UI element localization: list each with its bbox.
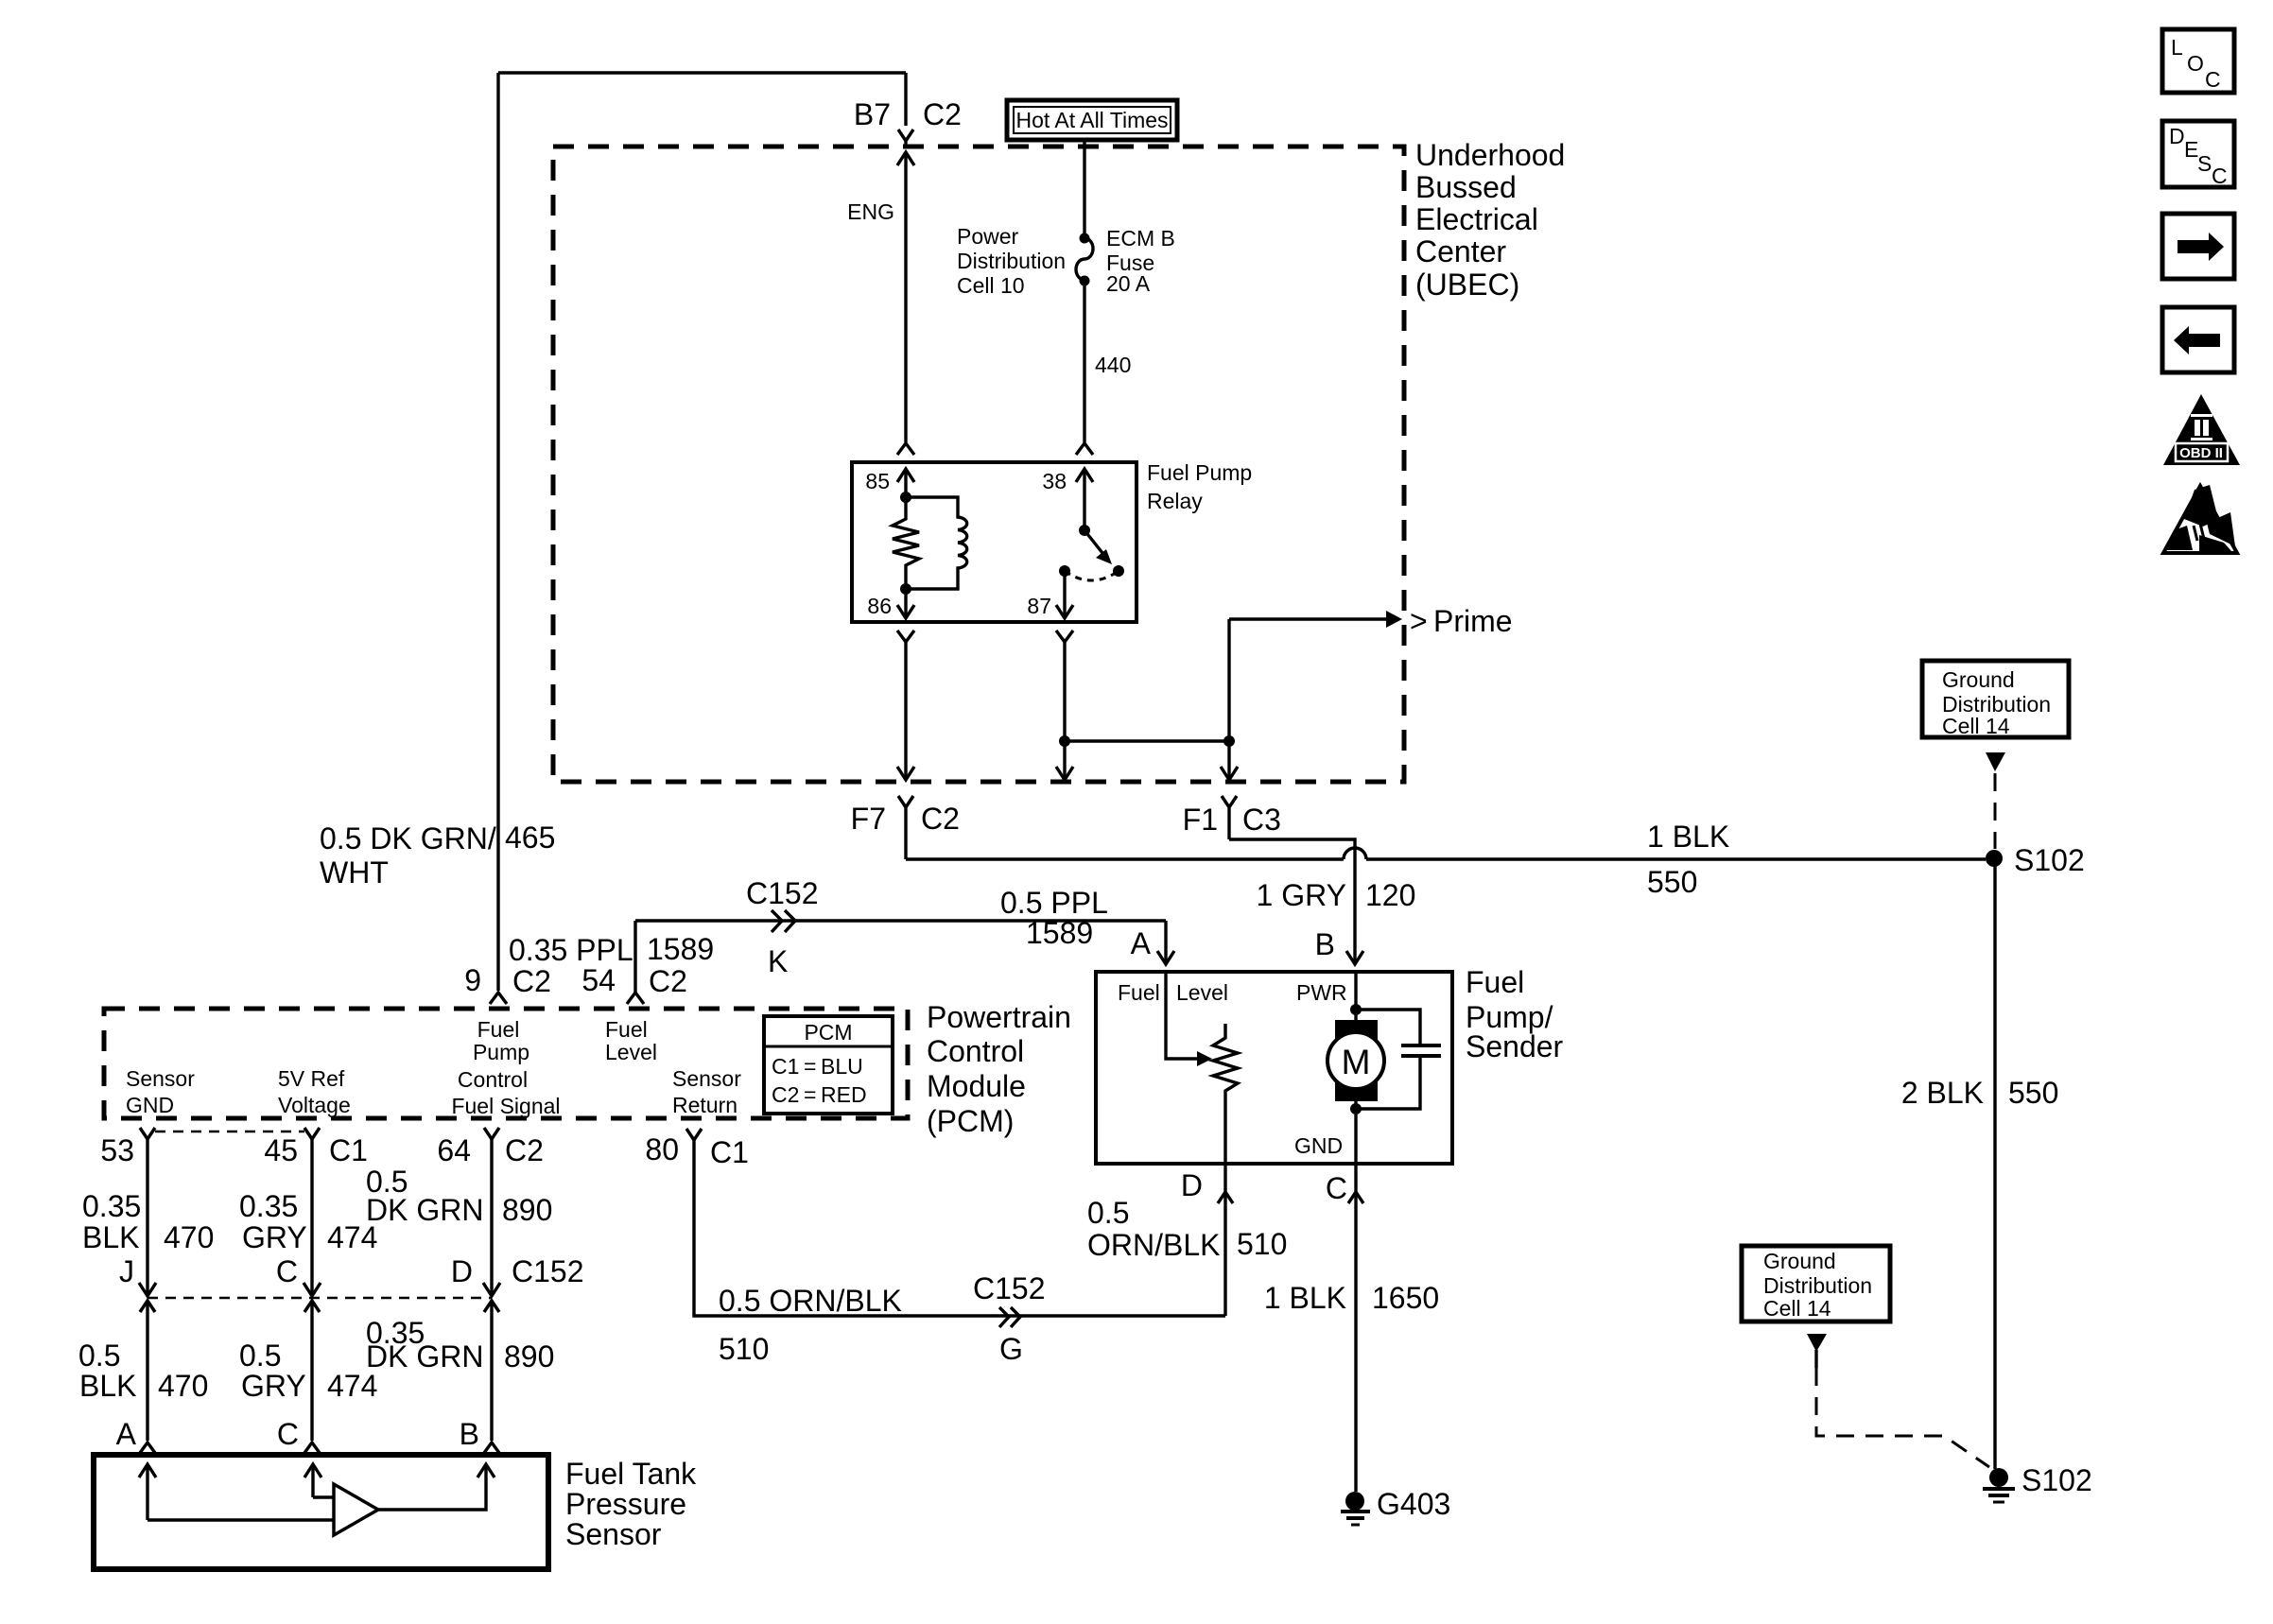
wire fuel level wiper from pin A	[1166, 972, 1197, 1059]
wire 1 BLK 550 from F7 to S102 with hop	[906, 857, 1344, 860]
wire 465 DK GRN/WHT left vertical	[496, 73, 499, 991]
wire top horizontal feed	[498, 71, 906, 74]
svg-text:K: K	[768, 944, 788, 978]
svg-text:9: 9	[464, 963, 481, 997]
label ECM B Fuse 20 A	[1106, 226, 1175, 296]
relay pin 87 contact node	[1059, 565, 1070, 577]
PCM pin 45 connector	[304, 1128, 320, 1139]
label 0.5 GRY | 474 (lower)	[239, 1339, 377, 1403]
wire ENG from B7 down to relay pin 85	[904, 152, 907, 442]
PCM label Fuel Level	[605, 1017, 657, 1064]
svg-text:B: B	[460, 1417, 479, 1451]
wire down to fuel pump pin A	[1164, 921, 1167, 964]
svg-text:54: 54	[581, 963, 616, 997]
svg-text:Powertrain: Powertrain	[927, 1000, 1071, 1034]
svg-text:Fuel Signal: Fuel Signal	[451, 1094, 560, 1118]
svg-text:PWR: PWR	[1296, 980, 1347, 1005]
wire 440 from fuse to relay pin 38	[1083, 285, 1085, 442]
sensor internal wire C to amplifier	[313, 1495, 334, 1498]
label 0.35 DK GRN | 890 (lower)	[366, 1316, 554, 1373]
svg-text:Sensor: Sensor	[126, 1066, 195, 1091]
svg-text:GND: GND	[126, 1093, 174, 1117]
svg-text:G403: G403	[1377, 1487, 1450, 1521]
svg-text:Fuel: Fuel	[1466, 965, 1524, 999]
svg-text:Pump: Pump	[473, 1040, 529, 1064]
connector chevron below pump pin C	[1348, 1192, 1363, 1203]
svg-text:WHT: WHT	[320, 855, 389, 890]
wire 474 GRY upper segment	[310, 1139, 313, 1296]
svg-text:S: S	[2197, 151, 2212, 176]
sensor internal arrow pin B	[477, 1464, 495, 1477]
svg-text:C2: C2	[923, 97, 962, 131]
svg-text:Level: Level	[1176, 980, 1228, 1005]
connector B7 C2 symbol	[898, 130, 913, 148]
fuel pump motor	[1327, 1020, 1384, 1101]
splice S102 (upper) dot	[1986, 850, 2003, 867]
connector chevron below relay pin 86	[897, 631, 914, 642]
label 45 | C1	[264, 1133, 368, 1167]
svg-text:C: C	[1326, 1171, 1347, 1205]
fuse ECM B 20 A	[1076, 233, 1093, 286]
sensor internal arrow pin C	[304, 1464, 321, 1497]
Ground Distribution Cell 14 box (upper)	[1922, 661, 2069, 738]
connector chevron above relay pin 85	[897, 443, 914, 455]
svg-text:B7: B7	[854, 97, 891, 131]
wire pin 87 down to junction	[1063, 642, 1066, 741]
svg-text:Fuel Pump: Fuel Pump	[1147, 460, 1252, 485]
svg-text:0.5: 0.5	[239, 1339, 281, 1373]
wiper arrowhead	[1197, 1051, 1212, 1066]
wire 890 DK GRN lower segment	[490, 1301, 493, 1441]
svg-text:550: 550	[1647, 865, 1697, 899]
icon DESC box	[2162, 121, 2234, 188]
svg-text:PCM: PCM	[804, 1020, 852, 1045]
connector chevron below C152 at C	[304, 1301, 320, 1312]
label 80 | C1	[645, 1132, 749, 1169]
svg-text:64: 64	[437, 1133, 471, 1167]
arrow down at UBEC bottom on F7 wire	[897, 767, 914, 780]
svg-text:510: 510	[1237, 1227, 1287, 1261]
relay pin 85 arrow	[865, 469, 914, 497]
PCM legend box	[764, 1016, 893, 1114]
ground symbol at S102 (lower)	[1983, 1489, 2015, 1502]
svg-text:ECM B: ECM B	[1106, 226, 1175, 251]
label Powertrain Control Module (PCM)	[927, 1000, 1071, 1138]
svg-text:D: D	[451, 1254, 473, 1288]
svg-text:C2: C2	[921, 802, 960, 836]
junction dot motor bottom	[1350, 1103, 1362, 1114]
label 0.5 ORN/BLK / 510 (left)	[719, 1284, 902, 1366]
svg-text:0.5 ORN/BLK: 0.5 ORN/BLK	[719, 1284, 902, 1318]
wire 1 GRY 120 from F1 to fuel pump B	[1229, 839, 1355, 964]
svg-text:BLK: BLK	[79, 1369, 136, 1403]
PCM pin 53 connector	[140, 1128, 155, 1139]
thin dashed connector line C152 (J-C-D)	[147, 1297, 492, 1300]
label 1 GRY | 120	[1257, 878, 1416, 912]
svg-text:85: 85	[865, 469, 890, 493]
svg-text:C1: C1	[710, 1135, 749, 1169]
off-page triangle below lower Ground Distribution box	[1807, 1334, 1827, 1352]
svg-text:Center: Center	[1415, 234, 1506, 268]
svg-text:0.35 PPL: 0.35 PPL	[509, 933, 633, 967]
svg-text:M: M	[1342, 1043, 1371, 1081]
wire 470 BLK upper segment	[146, 1139, 148, 1296]
svg-text:38: 38	[1042, 469, 1067, 493]
junction dot F1 branch	[1223, 735, 1235, 747]
label 0.5 DK GRN | 890	[366, 1165, 552, 1227]
svg-text:474: 474	[327, 1369, 377, 1403]
svg-text:Sensor: Sensor	[672, 1066, 741, 1091]
label 0.35 BLK | 470	[82, 1189, 214, 1254]
svg-text:C3: C3	[1242, 803, 1281, 837]
svg-text:Cell 14: Cell 14	[1942, 714, 2010, 738]
arrow up at UBEC top edge on ENG wire	[897, 152, 914, 165]
relay switch arm (energized, arrow)	[1084, 530, 1112, 564]
svg-text:Electrical: Electrical	[1415, 202, 1538, 236]
label 1 BLK | 1650	[1264, 1281, 1439, 1315]
PCM pin 54 connector chevron	[627, 993, 644, 1004]
svg-text:>: >	[1410, 604, 1428, 638]
svg-text:1 BLK: 1 BLK	[1647, 820, 1729, 854]
label 9 | C2	[464, 963, 551, 998]
label 64 | C2	[437, 1133, 544, 1167]
label 0.5 ORN/BLK | 510 (right)	[1087, 1196, 1287, 1262]
label Fuel Pump Relay	[1147, 460, 1252, 513]
icon back arrow box	[2162, 307, 2234, 372]
arrow J at C152	[139, 1283, 156, 1296]
sensor internal wire amplifier to pin B	[378, 1464, 486, 1510]
thin dashed connector line C1 (53-45)	[155, 1131, 304, 1133]
connector C152 G chevrons	[999, 1307, 1020, 1327]
junction dot motor top	[1350, 1004, 1362, 1015]
fuel level sender resistor	[1213, 1024, 1238, 1164]
PCM internal labels	[451, 1017, 560, 1118]
svg-text:80: 80	[645, 1132, 679, 1166]
svg-text:C152: C152	[512, 1254, 584, 1288]
off-page triangle below upper Ground Distribution box	[1986, 752, 2005, 771]
capacitor plates	[1401, 1045, 1441, 1056]
wire Prime horizontal	[1229, 617, 1386, 620]
svg-text:F7: F7	[851, 802, 886, 836]
svg-text:120: 120	[1365, 878, 1415, 912]
svg-text:O: O	[2187, 51, 2204, 76]
svg-text:DK GRN: DK GRN	[366, 1339, 483, 1373]
label 0.35 PPL | 1589 / 54 | C2	[509, 932, 714, 998]
svg-text:Distribution: Distribution	[957, 249, 1066, 273]
svg-text:Relay: Relay	[1147, 489, 1203, 513]
svg-text:45: 45	[264, 1133, 298, 1167]
label Fuel Pump/ Sender	[1466, 965, 1564, 1063]
svg-text:890: 890	[504, 1339, 554, 1373]
connector chevron below C152 at J	[140, 1301, 155, 1312]
PCM pin 64 connector	[484, 1128, 499, 1139]
svg-text:53: 53	[100, 1133, 134, 1167]
svg-text:GRY: GRY	[242, 1220, 307, 1254]
wire 510 horizontal to PCM pin 80	[694, 1140, 1225, 1316]
svg-text:D: D	[2169, 124, 2185, 148]
stem below triangle	[1814, 1350, 1817, 1368]
label 1 BLK | 550	[1647, 820, 1729, 899]
relay pin 87 arrow	[1027, 571, 1073, 618]
svg-text:GND: GND	[1294, 1133, 1343, 1158]
pump internal label Fuel | Level	[1118, 980, 1228, 1005]
arrow down at UBEC bottom on 87 stub	[1056, 767, 1073, 780]
svg-text:20 A: 20 A	[1106, 271, 1151, 296]
svg-text:2 BLK: 2 BLK	[1901, 1076, 1984, 1110]
svg-text:Distribution: Distribution	[1763, 1273, 1872, 1298]
svg-text:BLK: BLK	[82, 1220, 139, 1254]
wire junction horizontal to F1 branch	[1065, 739, 1229, 742]
svg-text:Pressure: Pressure	[565, 1487, 686, 1521]
relay pin 86 arrow	[867, 589, 914, 618]
wire F1 branch down to dashed edge	[1227, 741, 1230, 779]
sensor internal arrow pin A	[139, 1464, 156, 1520]
wire 1650 BLK from pin C to G403	[1354, 1164, 1357, 1492]
svg-text:Voltage: Voltage	[278, 1093, 351, 1117]
svg-text:C2: C2	[649, 964, 687, 998]
label Power Distribution Cell 10	[957, 224, 1066, 298]
svg-text:Cell 14: Cell 14	[1763, 1296, 1831, 1321]
svg-text:Fuel: Fuel	[1118, 980, 1160, 1005]
wire F1 branch up to Prime line	[1227, 619, 1230, 741]
svg-text:5V Ref: 5V Ref	[278, 1066, 345, 1091]
svg-text:J: J	[119, 1254, 134, 1288]
label 0.35 GRY | 474	[239, 1189, 377, 1254]
relay switch dashed rest-position arc	[1065, 571, 1119, 580]
svg-text:Prime: Prime	[1433, 604, 1513, 638]
relay box Fuel Pump Relay	[852, 462, 1136, 622]
icon ESD triangle	[2163, 485, 2237, 553]
svg-text:A: A	[1131, 926, 1152, 960]
svg-text:C: C	[2205, 67, 2221, 92]
svg-text:Sender: Sender	[1466, 1029, 1564, 1063]
Fuel Tank Pressure Sensor box	[94, 1455, 548, 1569]
svg-text:C152: C152	[973, 1271, 1046, 1305]
label 0.5 PPL / 1589	[1000, 886, 1108, 950]
arrow down at UBEC bottom on F1 wire	[1221, 767, 1238, 780]
wire pin 86 to F7	[904, 642, 907, 779]
svg-text:Bussed: Bussed	[1415, 170, 1517, 204]
junction dot pin 87 branch	[1059, 735, 1070, 747]
svg-text:87: 87	[1027, 594, 1051, 618]
PCM pin 9 connector chevron	[490, 993, 507, 1004]
svg-text:Cell 10: Cell 10	[957, 273, 1025, 298]
svg-text:C2: C2	[512, 964, 551, 998]
svg-text:F1: F1	[1183, 803, 1218, 837]
svg-text:DK GRN: DK GRN	[366, 1193, 483, 1227]
svg-text:ENG: ENG	[847, 199, 894, 224]
svg-text:GRY: GRY	[241, 1369, 306, 1403]
svg-text:D: D	[1181, 1168, 1203, 1202]
arrow C at C152	[304, 1283, 321, 1296]
svg-text:OBD II: OBD II	[2179, 445, 2223, 461]
svg-text:(UBEC): (UBEC)	[1415, 268, 1519, 302]
svg-text:C2 = RED: C2 = RED	[772, 1082, 867, 1107]
PCM dashed box	[104, 1009, 908, 1118]
label Fuel Tank Pressure Sensor	[565, 1457, 697, 1551]
svg-text:Sensor: Sensor	[565, 1517, 662, 1551]
svg-text:Control: Control	[927, 1034, 1024, 1068]
Ground Distribution Cell 14 box (lower)	[1742, 1246, 1890, 1322]
svg-text:C: C	[277, 1417, 299, 1451]
sensor internal wire A to amplifier	[147, 1518, 334, 1521]
wire 890 DK GRN upper segment	[490, 1139, 493, 1296]
relay coil resistor	[893, 497, 919, 589]
dashed wire from triangle down to S102	[1994, 773, 1997, 849]
svg-text:86: 86	[867, 594, 892, 618]
svg-text:0.35: 0.35	[82, 1189, 141, 1223]
svg-text:S102: S102	[2021, 1463, 2092, 1497]
connector F7 C2 symbol	[898, 796, 913, 859]
icon forward arrow box	[2162, 214, 2234, 279]
svg-text:0.5 PPL: 0.5 PPL	[1000, 886, 1108, 920]
label 0.5 DK GRN/ WHT | 465	[320, 821, 555, 890]
svg-text:Fuel: Fuel	[477, 1017, 520, 1042]
UBEC dashed box	[553, 147, 1404, 782]
connector chevron at sensor pin B	[484, 1443, 499, 1453]
svg-text:Ground: Ground	[1763, 1249, 1836, 1273]
label Underhood Bussed Electrical Center (UBEC)	[1415, 138, 1565, 302]
svg-text:470: 470	[164, 1220, 214, 1254]
ground G403 dot	[1345, 1492, 1364, 1511]
svg-text:470: 470	[158, 1369, 208, 1403]
wire pump power from pin B	[1354, 972, 1357, 1020]
svg-text:Fuel Tank: Fuel Tank	[565, 1457, 697, 1491]
relay coil top node	[900, 492, 911, 503]
svg-text:C: C	[2212, 164, 2228, 188]
connector chevron at sensor pin A	[140, 1443, 155, 1453]
relay pin 38 arrow and switch common	[1042, 469, 1093, 530]
svg-text:1589: 1589	[1026, 916, 1093, 950]
svg-text:0.5 DK GRN/: 0.5 DK GRN/	[320, 821, 496, 855]
connector C152 K chevrons	[772, 910, 795, 932]
connector F1 C3 symbol	[1222, 796, 1237, 839]
svg-text:Level: Level	[605, 1040, 657, 1064]
svg-text:0.35: 0.35	[239, 1189, 298, 1223]
svg-text:C152: C152	[746, 876, 819, 910]
icon LOC box	[2162, 29, 2234, 93]
svg-text:1589: 1589	[647, 932, 714, 966]
svg-text:B: B	[1315, 927, 1335, 961]
svg-text:0.5: 0.5	[78, 1339, 120, 1373]
svg-text:1 GRY: 1 GRY	[1257, 878, 1346, 912]
PCM label 5V Ref Voltage	[278, 1066, 351, 1117]
Fuel Pump/Sender box	[1096, 972, 1452, 1164]
arrow D at C152	[483, 1283, 500, 1296]
relay switch contact node (arm side)	[1113, 565, 1124, 577]
sensor amplifier triangle	[334, 1484, 378, 1535]
svg-text:C1 = BLU: C1 = BLU	[772, 1054, 863, 1079]
label > Prime	[1410, 604, 1513, 638]
arrow down at fuel pump pin B	[1346, 951, 1363, 964]
relay switch common node	[1079, 525, 1090, 536]
svg-text:Ground: Ground	[1942, 667, 2015, 692]
icon OBD II triangle	[2163, 394, 2240, 465]
wire drop to B7	[904, 73, 907, 126]
wire 474 GRY lower segment	[310, 1301, 313, 1441]
connector chevron at sensor pin C	[304, 1443, 320, 1453]
wire 510 ORN/BLK from pin D down	[1223, 1164, 1226, 1316]
svg-text:C1: C1	[329, 1133, 368, 1167]
PCM label Sensor Return	[672, 1066, 741, 1117]
connector chevron below relay pin 87	[1056, 631, 1073, 642]
svg-text:Power: Power	[957, 224, 1019, 249]
svg-text:Hot At All Times: Hot At All Times	[1015, 108, 1168, 132]
svg-text:1 BLK: 1 BLK	[1264, 1281, 1346, 1315]
svg-text:1650: 1650	[1372, 1281, 1439, 1315]
wire from Hot At All Times to fuse	[1083, 140, 1085, 234]
splice S102 (lower) dot	[1989, 1468, 2008, 1487]
label 2 BLK | 550	[1901, 1076, 2059, 1110]
svg-text:0.5: 0.5	[1087, 1196, 1129, 1230]
relay coil bottom node	[900, 583, 911, 595]
svg-text:510: 510	[719, 1332, 769, 1366]
svg-text:440: 440	[1095, 353, 1131, 377]
svg-text:Fuel: Fuel	[605, 1017, 648, 1042]
connector chevron above relay pin 38	[1076, 443, 1093, 455]
wire pin 54 up to C152 line	[633, 921, 636, 993]
relay coil winding	[906, 497, 967, 589]
capacitor branch wires	[1356, 1010, 1420, 1109]
svg-text:(PCM): (PCM)	[927, 1104, 1014, 1138]
svg-text:S102: S102	[2014, 843, 2085, 877]
svg-text:550: 550	[2008, 1076, 2058, 1110]
svg-text:465: 465	[505, 821, 555, 855]
arrow down at fuel pump pin A	[1157, 951, 1174, 964]
svg-text:Control: Control	[458, 1067, 528, 1092]
Hot At All Times box	[1007, 100, 1177, 140]
wire junction to dashed edge	[1063, 741, 1066, 779]
wire motor bottom to pin C	[1354, 1101, 1357, 1164]
wire 470 BLK lower segment	[146, 1301, 148, 1441]
PCM pin 80 connector	[686, 1129, 702, 1140]
svg-text:Underhood: Underhood	[1415, 138, 1565, 172]
Prime arrowhead	[1386, 611, 1402, 628]
svg-text:Module: Module	[927, 1069, 1026, 1103]
PCM label Sensor GND	[126, 1066, 195, 1117]
svg-text:Return: Return	[672, 1093, 737, 1117]
wire 0.5 PPL 1589 horizontal C152 K	[635, 919, 1166, 922]
dashed wire from lower Ground Distribution to S102 (lower)	[1816, 1368, 1989, 1467]
svg-text:C: C	[276, 1254, 298, 1288]
svg-text:G: G	[999, 1332, 1023, 1366]
connector chevron below pump pin D	[1218, 1192, 1233, 1203]
svg-text:L: L	[2171, 35, 2183, 60]
svg-text:890: 890	[502, 1193, 552, 1227]
svg-text:A: A	[116, 1417, 137, 1451]
wire 2 BLK 550 vertical	[1993, 858, 1996, 1469]
svg-text:C2: C2	[505, 1133, 544, 1167]
connector chevron below C152 at D	[484, 1301, 499, 1312]
label 0.5 BLK | 470 (lower)	[78, 1339, 208, 1403]
ground symbol G403	[1341, 1512, 1370, 1525]
svg-text:ORN/BLK: ORN/BLK	[1087, 1228, 1220, 1262]
